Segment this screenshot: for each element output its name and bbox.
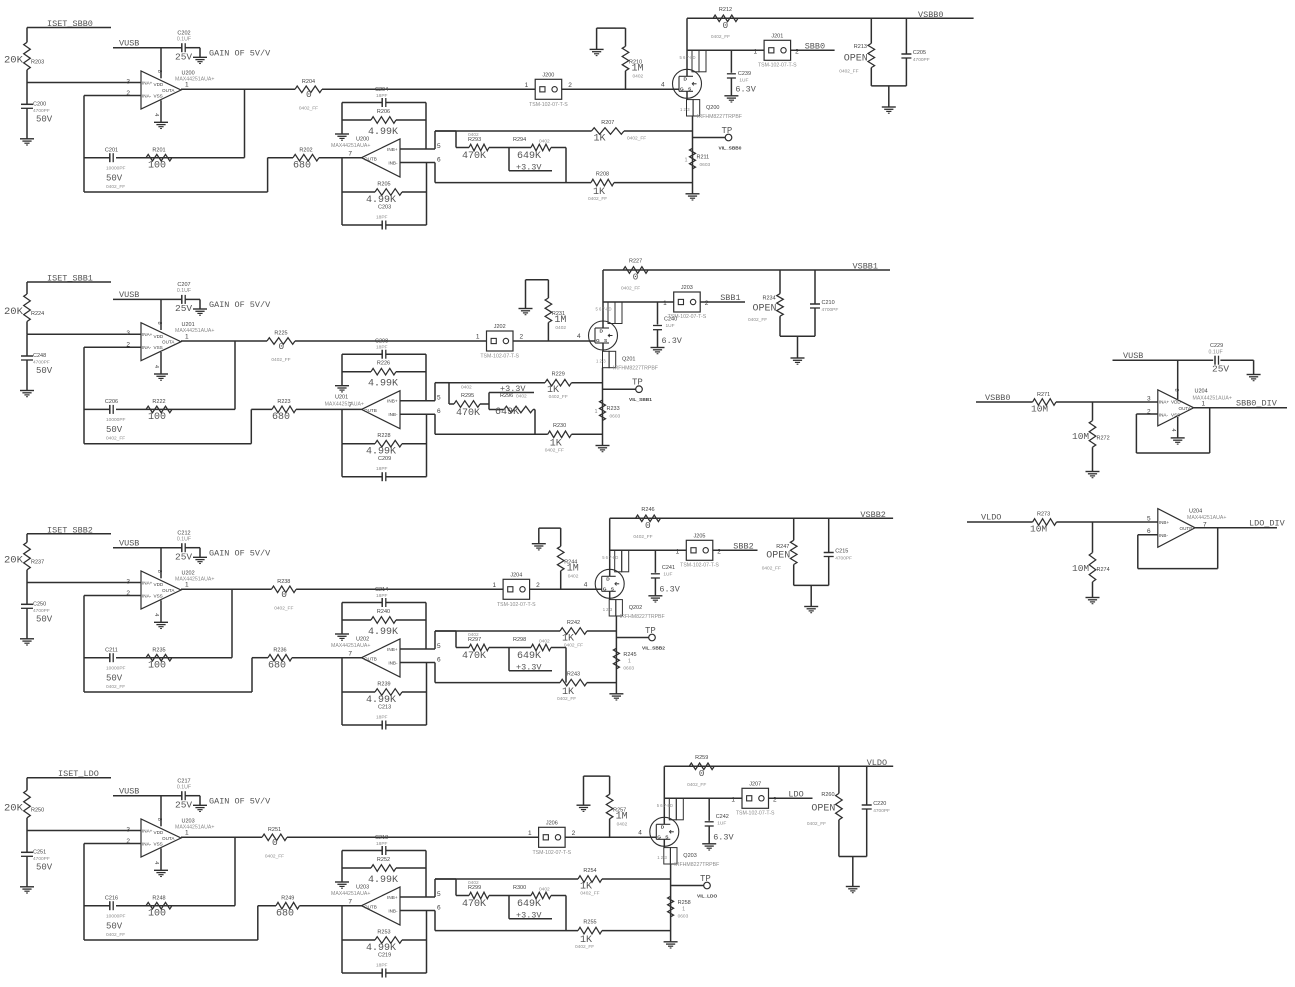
svg-text:G: G	[657, 834, 661, 840]
ground	[154, 869, 168, 871]
resistor R201 100	[146, 154, 172, 161]
svg-text:0402_FF: 0402_FF	[762, 566, 781, 572]
svg-text:J204: J204	[510, 572, 522, 578]
wire	[234, 341, 236, 409]
svg-text:0402_FF: 0402_FF	[557, 696, 576, 702]
ground	[596, 445, 610, 447]
svg-text:1: 1	[595, 409, 598, 415]
ground	[532, 543, 546, 545]
svg-text:VIL_SBB2: VIL_SBB2	[642, 645, 665, 651]
wire	[670, 864, 672, 942]
wire	[565, 148, 567, 183]
svg-text:C203: C203	[378, 204, 391, 210]
wire	[1056, 401, 1158, 403]
ground	[154, 121, 168, 123]
svg-text:3: 3	[126, 578, 130, 585]
resistor R208 1K	[435, 182, 591, 184]
capacitor C203 18PF	[342, 224, 382, 226]
capacitor C239 1UF	[730, 50, 732, 73]
svg-text:4700PF: 4700PF	[913, 57, 930, 63]
svg-text:TP: TP	[722, 126, 733, 136]
wire	[610, 517, 893, 519]
svg-text:1: 1	[476, 334, 480, 341]
resistor R227 0	[623, 267, 648, 274]
capacitor C214 18PF	[342, 602, 382, 604]
svg-text:OUTB: OUTB	[364, 656, 377, 661]
svg-text:100: 100	[148, 412, 166, 423]
resistor R226 4.99K	[342, 371, 371, 373]
svg-text:0402: 0402	[539, 638, 550, 644]
capacitor C204 18PF	[342, 102, 382, 104]
ground	[193, 804, 207, 806]
resistor R247 OPEN	[793, 518, 795, 540]
wire	[26, 778, 28, 791]
wire	[160, 600, 162, 622]
wire	[664, 797, 742, 799]
svg-text:0402_FF: 0402_FF	[687, 782, 706, 788]
svg-text:20K: 20K	[4, 554, 24, 566]
wire	[181, 340, 267, 342]
svg-text:+3.3V: +3.3V	[516, 910, 542, 920]
svg-text:R259: R259	[695, 755, 708, 761]
resistor R230 1K	[435, 433, 548, 435]
wire	[160, 848, 162, 870]
svg-text:18PF: 18PF	[376, 962, 388, 968]
svg-text:IRFHM8227TRPBF: IRFHM8227TRPBF	[613, 366, 658, 372]
svg-text:R247: R247	[776, 544, 789, 550]
svg-text:0603: 0603	[700, 162, 711, 168]
svg-text:TSM-102-07-T-S: TSM-102-07-T-S	[668, 314, 707, 320]
pins 1-3 Q203	[664, 848, 671, 864]
wire	[615, 616, 617, 694]
svg-text:6.3V: 6.3V	[735, 84, 756, 94]
ground	[335, 881, 349, 883]
svg-text:INA+: INA+	[142, 581, 153, 586]
svg-text:J202: J202	[494, 324, 506, 330]
svg-text:TP: TP	[645, 626, 656, 636]
wire	[603, 301, 674, 303]
svg-text:680: 680	[272, 412, 290, 423]
svg-text:R246: R246	[641, 507, 654, 513]
svg-text:5 6 7-8D: 5 6 7-8D	[657, 803, 673, 808]
wire	[26, 818, 28, 831]
svg-text:MAX44251AUA+: MAX44251AUA+	[331, 143, 370, 149]
svg-text:J203: J203	[681, 285, 693, 291]
svg-text:R203: R203	[31, 59, 44, 65]
svg-text:U202: U202	[182, 570, 195, 576]
svg-text:OPEN: OPEN	[844, 53, 868, 64]
capacitor C242 1UF	[708, 798, 710, 821]
resistor R252 4.99K	[342, 867, 371, 869]
svg-text:6: 6	[437, 656, 441, 663]
wire	[1138, 534, 1158, 536]
transistor Q200 IRFHM8227TRPBF	[673, 69, 702, 98]
svg-text:R202: R202	[299, 147, 312, 153]
svg-text:50V: 50V	[36, 614, 53, 624]
wire	[435, 630, 456, 632]
ground	[724, 95, 738, 97]
svg-text:4.99K: 4.99K	[368, 127, 398, 138]
power +3.3V	[508, 896, 510, 919]
resistor R243 1K	[435, 682, 560, 684]
svg-text:6.3V: 6.3V	[713, 832, 734, 842]
svg-text:R253: R253	[377, 929, 390, 935]
svg-text:0402_FF: 0402_FF	[748, 317, 767, 323]
svg-text:INB-: INB-	[388, 161, 398, 166]
svg-text:R225: R225	[274, 331, 287, 337]
svg-text:25V: 25V	[175, 303, 192, 314]
svg-text:0603: 0603	[610, 414, 621, 420]
wire	[687, 17, 974, 19]
resistor R272 10M	[1092, 402, 1094, 421]
wire	[84, 95, 141, 97]
svg-text:10000PF: 10000PF	[106, 913, 126, 919]
svg-text:INB-: INB-	[1159, 533, 1169, 538]
svg-text:VDD: VDD	[154, 830, 164, 835]
svg-text:6: 6	[437, 156, 441, 163]
svg-text:2: 2	[773, 796, 777, 803]
wire	[234, 837, 236, 905]
svg-text:0402_FF: 0402_FF	[839, 69, 858, 75]
wire	[341, 603, 343, 635]
svg-text:6.3V: 6.3V	[659, 584, 680, 594]
svg-text:OUTB: OUTB	[364, 408, 377, 413]
pins 5-8 Q202	[615, 550, 622, 572]
wire	[26, 570, 28, 583]
connector J203 TSM-102-07-T-S	[674, 292, 701, 312]
wire	[513, 340, 595, 342]
wire	[400, 148, 435, 150]
svg-text:R206: R206	[377, 109, 390, 115]
svg-text:R260: R260	[821, 792, 834, 798]
svg-text:1: 1	[525, 82, 529, 89]
svg-text:TSM-102-07-T-S: TSM-102-07-T-S	[736, 810, 775, 816]
svg-text:INA+: INA+	[1159, 400, 1170, 405]
svg-text:0402: 0402	[633, 73, 644, 79]
svg-text:C206: C206	[105, 399, 118, 405]
svg-text:18PF: 18PF	[376, 593, 388, 599]
svg-text:INB+: INB+	[387, 895, 398, 900]
svg-text:R205: R205	[377, 181, 390, 187]
wire	[83, 347, 85, 444]
wire	[160, 48, 162, 79]
svg-text:4700PF: 4700PF	[33, 360, 50, 366]
svg-text:0.1UF: 0.1UF	[177, 36, 191, 42]
svg-text:680: 680	[276, 908, 294, 919]
svg-text:0: 0	[272, 837, 278, 848]
ground	[20, 390, 34, 392]
svg-text:INA+: INA+	[142, 829, 153, 834]
wire	[287, 836, 539, 838]
svg-text:0402_FF: 0402_FF	[545, 448, 564, 454]
svg-text:1 2-3: 1 2-3	[596, 359, 606, 364]
svg-text:C204: C204	[375, 87, 388, 93]
svg-text:VSS: VSS	[154, 345, 163, 350]
svg-text:C209: C209	[378, 456, 391, 462]
resistor R300 649K	[489, 895, 531, 897]
resistor R225 0	[267, 338, 295, 345]
wire	[185, 47, 200, 49]
svg-text:3: 3	[126, 330, 130, 337]
ground	[335, 133, 349, 135]
wire	[1177, 360, 1179, 399]
svg-text:18PF: 18PF	[376, 214, 388, 220]
svg-text:4.99K: 4.99K	[368, 875, 398, 886]
capacitor C201 10000PF	[109, 153, 111, 162]
svg-text:C218: C218	[375, 835, 388, 841]
wire	[319, 157, 362, 159]
svg-text:C242: C242	[716, 814, 729, 820]
svg-text:VSS: VSS	[154, 842, 163, 847]
svg-text:INA-: INA-	[142, 842, 152, 847]
svg-text:Q203: Q203	[683, 853, 696, 859]
connector J200 TSM-102-07-T-S	[535, 79, 562, 99]
svg-text:R298: R298	[513, 637, 526, 643]
wire	[687, 49, 764, 51]
wire	[26, 282, 28, 294]
svg-text:0603: 0603	[678, 913, 689, 919]
svg-text:10000PF: 10000PF	[106, 665, 126, 671]
svg-text:R235: R235	[152, 647, 165, 653]
capacitor C206 10000PF	[109, 405, 111, 414]
resistor R223 680	[272, 406, 296, 413]
svg-text:4: 4	[153, 613, 159, 616]
svg-text:4: 4	[577, 333, 581, 340]
svg-text:4: 4	[638, 829, 642, 836]
svg-text:C216: C216	[105, 895, 118, 901]
svg-text:0402_FF: 0402_FF	[274, 605, 293, 611]
wire	[341, 103, 343, 135]
svg-text:1: 1	[528, 830, 532, 837]
svg-text:R226: R226	[377, 361, 390, 367]
wire	[300, 905, 362, 907]
svg-text:2: 2	[717, 548, 721, 555]
svg-text:INA-: INA-	[142, 94, 152, 99]
capacitor C216 10000PF	[109, 901, 111, 910]
svg-text:0402_FF: 0402_FF	[106, 684, 125, 690]
svg-text:R228: R228	[377, 433, 390, 439]
wire	[231, 589, 233, 657]
transistor Q203 IRFHM8227TRPBF	[650, 817, 679, 846]
resistor R213 OPEN	[870, 18, 872, 43]
svg-text:18PF: 18PF	[376, 466, 388, 472]
svg-text:R252: R252	[377, 857, 390, 863]
ground	[804, 606, 818, 608]
svg-text:R248: R248	[152, 895, 165, 901]
wire	[83, 844, 85, 941]
resistor R222 100	[146, 406, 172, 413]
wire	[26, 534, 28, 543]
capacitor C213 18PF	[342, 724, 382, 726]
wire	[181, 836, 262, 838]
svg-text:R255: R255	[583, 919, 596, 925]
svg-text:1 2-3: 1 2-3	[680, 107, 690, 112]
svg-text:0402_FF: 0402_FF	[621, 286, 640, 292]
svg-text:0402_FF: 0402_FF	[807, 821, 826, 827]
resistor R250 20K	[24, 790, 31, 818]
svg-text:TSM-102-07-T-S: TSM-102-07-T-S	[680, 562, 719, 568]
svg-text:OUTB: OUTB	[1180, 526, 1193, 531]
svg-text:1UF: 1UF	[666, 323, 675, 329]
svg-text:INB+: INB+	[387, 147, 398, 152]
svg-text:C211: C211	[105, 647, 118, 653]
svg-text:50V: 50V	[36, 114, 53, 124]
ground	[1086, 597, 1100, 599]
wire	[565, 896, 567, 931]
svg-text:100: 100	[148, 160, 166, 171]
svg-text:7: 7	[348, 150, 352, 157]
ground	[1247, 374, 1261, 376]
svg-text:INA-: INA-	[142, 594, 152, 599]
wire	[602, 368, 604, 446]
svg-text:1: 1	[1202, 401, 1206, 408]
resistor R297 470K	[456, 647, 469, 649]
resistor R235 100	[146, 654, 172, 661]
capacitor C205 4700PF	[905, 18, 907, 54]
svg-text:R243: R243	[567, 671, 580, 677]
wire	[292, 657, 362, 659]
svg-text:5: 5	[437, 643, 441, 650]
svg-text:50V: 50V	[106, 673, 123, 683]
svg-text:7: 7	[348, 898, 352, 905]
svg-text:0: 0	[306, 89, 312, 100]
svg-text:VSS: VSS	[154, 594, 163, 599]
wire	[26, 322, 28, 335]
svg-text:0402: 0402	[539, 138, 550, 144]
resistor R258 1	[668, 896, 674, 917]
svg-text:R204: R204	[302, 79, 315, 85]
svg-text:10000PF: 10000PF	[106, 417, 126, 423]
svg-text:5 6 7-8D: 5 6 7-8D	[602, 555, 618, 560]
wire	[530, 588, 602, 590]
svg-text:OUTA: OUTA	[162, 836, 175, 841]
svg-text:TP: TP	[700, 874, 711, 884]
resistor R239 4.99K	[342, 691, 375, 693]
wire	[341, 906, 343, 940]
svg-text:Q202: Q202	[629, 605, 642, 611]
node SBB2	[713, 549, 758, 551]
ground	[519, 308, 533, 310]
svg-text:18PF: 18PF	[376, 93, 388, 99]
svg-text:C215: C215	[835, 549, 848, 555]
capacitor C212 0.1UF	[181, 543, 183, 552]
ground	[686, 193, 700, 195]
connector J207 TSM-102-07-T-S	[742, 788, 769, 808]
svg-text:10M: 10M	[1030, 524, 1047, 535]
resistor R296 649K	[480, 403, 489, 405]
svg-text:6.3V: 6.3V	[662, 336, 683, 346]
svg-text:GAIN OF 5V/V: GAIN OF 5V/V	[209, 796, 271, 806]
svg-text:0402: 0402	[461, 385, 472, 391]
svg-text:C201: C201	[105, 147, 118, 153]
svg-text:4700PF: 4700PF	[835, 555, 852, 561]
svg-text:18PF: 18PF	[376, 714, 388, 720]
svg-text:D: D	[661, 825, 665, 831]
svg-text:R294: R294	[513, 137, 526, 143]
svg-text:0603: 0603	[623, 665, 634, 671]
wire	[322, 88, 535, 90]
svg-text:680: 680	[293, 160, 311, 171]
svg-text:R213: R213	[854, 44, 867, 50]
svg-text:MAX44251AUA+: MAX44251AUA+	[331, 891, 370, 897]
svg-text:TSM-102-07-T-S: TSM-102-07-T-S	[529, 102, 568, 108]
svg-text:4.99K: 4.99K	[368, 627, 398, 638]
wire	[181, 588, 271, 590]
capacitor C219 18PF	[342, 972, 382, 974]
capacitor C209 18PF	[342, 476, 382, 478]
svg-text:1: 1	[682, 906, 685, 912]
wire	[341, 192, 343, 225]
wire	[84, 843, 141, 845]
connector J204 TSM-102-07-T-S	[503, 579, 529, 599]
op-amp U201A MAX44251AUA+	[126, 322, 214, 369]
svg-text:4700PF: 4700PF	[33, 108, 50, 114]
svg-text:INB-: INB-	[388, 661, 398, 666]
wire	[400, 648, 435, 650]
op-amp U204B MAX44251AUA+	[1147, 509, 1226, 548]
op-amp U201B MAX44251AUA+	[325, 391, 441, 429]
wire	[26, 856, 28, 887]
svg-text:INA-: INA-	[1159, 412, 1169, 417]
node SBB1	[700, 301, 745, 303]
resistor R237 20K	[24, 542, 31, 570]
svg-text:VUSB: VUSB	[119, 38, 139, 48]
wire	[565, 836, 656, 838]
resistor R271 10M	[1033, 399, 1056, 406]
svg-text:20K: 20K	[4, 802, 24, 814]
svg-text:6: 6	[1147, 528, 1151, 535]
svg-text:VIL_SBB1: VIL_SBB1	[629, 397, 652, 403]
wire	[83, 96, 85, 193]
svg-text:2: 2	[536, 582, 540, 589]
svg-text:1: 1	[628, 658, 631, 664]
svg-text:C219: C219	[378, 952, 391, 958]
connector J201 TSM-102-07-T-S	[764, 40, 791, 60]
svg-text:C250: C250	[33, 601, 46, 607]
svg-text:R222: R222	[152, 399, 165, 405]
svg-text:G: G	[680, 86, 684, 92]
ground	[335, 633, 349, 635]
svg-text:0: 0	[281, 589, 287, 600]
svg-text:GAIN OF 5V/V: GAIN OF 5V/V	[209, 548, 271, 558]
connector J205 TSM-102-07-T-S	[686, 540, 713, 560]
svg-text:VUSB: VUSB	[119, 786, 139, 796]
svg-text:0: 0	[279, 341, 285, 352]
svg-text:SBB2: SBB2	[733, 541, 753, 551]
pins 1-3 Q201	[603, 351, 610, 367]
ground	[590, 48, 604, 50]
test point TP VIL_SBB1	[603, 388, 636, 390]
svg-text:C210: C210	[822, 300, 835, 306]
pins 5-8 Q203	[669, 798, 676, 820]
wire	[84, 595, 141, 597]
svg-text:25V: 25V	[175, 51, 192, 62]
svg-text:C229: C229	[1210, 343, 1223, 349]
svg-text:50V: 50V	[106, 921, 123, 931]
svg-text:649K: 649K	[517, 899, 541, 910]
svg-text:1M: 1M	[554, 315, 566, 326]
svg-text:R227: R227	[629, 259, 642, 265]
svg-text:3: 3	[126, 78, 130, 85]
svg-text:C208: C208	[375, 339, 388, 345]
wire	[341, 354, 343, 386]
svg-text:OUTA: OUTA	[162, 340, 175, 345]
svg-text:R223: R223	[277, 399, 290, 405]
svg-text:25V: 25V	[175, 799, 192, 810]
resistor R206 4.99K	[342, 119, 371, 121]
svg-text:LDO_DIV: LDO_DIV	[1249, 519, 1286, 529]
svg-text:VSBB0: VSBB0	[918, 10, 944, 20]
